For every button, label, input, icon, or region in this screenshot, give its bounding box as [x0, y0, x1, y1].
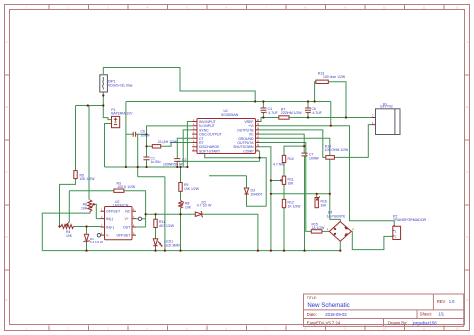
wire R6 bottom ground loop — [42, 212, 90, 251]
svg-text:100 OHM 1/2W: 100 OHM 1/2W — [325, 148, 349, 152]
svg-text:E: E — [5, 298, 7, 302]
svg-text:4.7 1/2 W: 4.7 1/2 W — [197, 204, 212, 208]
wire R16 row — [271, 193, 330, 195]
wire R13 right drop — [328, 82, 346, 118]
op-amp U2 LM741CN — [97, 200, 141, 240]
svg-text:1.0: 1.0 — [449, 299, 455, 304]
wire R9 top stub — [180, 167, 182, 183]
wire R5 top riser — [75, 106, 77, 171]
open circle pin V- — [97, 234, 100, 237]
capacitor C2 — [163, 158, 186, 166]
wire C6 top stub — [307, 102, 309, 109]
svg-text:100NF/50 NF: 100NF/50 NF — [163, 162, 183, 166]
wire GROUND pin to bridge — [260, 138, 341, 221]
wire C2 row to COMP — [177, 160, 259, 162]
svg-text:10K: 10K — [66, 234, 73, 238]
svg-text:TITLE:: TITLE: — [307, 296, 317, 300]
svg-text:COMP: COMP — [243, 149, 254, 153]
frame zone numbers top — [26, 6, 459, 10]
svg-text:100uF: 100uF — [141, 134, 151, 138]
svg-text:5.1 1/2 W: 5.1 1/2 W — [90, 240, 103, 244]
svg-text:10K: 10K — [288, 181, 295, 185]
potentiometer R6 — [81, 200, 94, 212]
wire R10 to R11 — [283, 163, 285, 177]
svg-text:22OHM 1/2W: 22OHM 1/2W — [281, 111, 302, 115]
resistor R12 — [282, 199, 301, 208]
svg-text:+ 4.7UF: + 4.7UF — [266, 111, 278, 115]
potentiometer R11 — [280, 176, 294, 185]
wire op-amp IN+ row — [74, 226, 101, 228]
wire R8 to zener D2 — [180, 208, 182, 214]
svg-text:3: 3 — [107, 326, 109, 330]
wire op-amp OUT stub — [136, 226, 146, 228]
wire OUTPUTB to R14 — [260, 130, 326, 158]
potentiometer R8 — [179, 201, 192, 210]
wire N.I.INPUT to C1 column — [147, 126, 193, 157]
capacitor C5 — [133, 129, 150, 137]
resistor R3 — [114, 182, 136, 193]
svg-text:10K: 10K — [185, 206, 192, 210]
svg-text:IN(+): IN(+) — [106, 225, 114, 229]
svg-text:VDG/S-01L blue: VDG/S-01L blue — [108, 84, 133, 88]
bridge rectifier D4 — [327, 211, 355, 242]
resistor R10 — [273, 155, 294, 166]
wire R8 node to ground — [180, 214, 182, 250]
svg-text:11: 11 — [422, 6, 425, 10]
svg-text:B: B — [466, 105, 468, 109]
svg-text:12: 12 — [455, 326, 459, 330]
wire node row y=214.8 — [146, 213, 196, 215]
wire R3 right feedback node — [124, 191, 146, 227]
wire rail1 left riser to C5 — [137, 134, 139, 177]
svg-text:Drawn By:: Drawn By: — [388, 320, 407, 325]
wire D3 top row — [209, 176, 247, 188]
svg-text:1N4007: 1N4007 — [251, 192, 263, 196]
capacitor C6 — [305, 107, 322, 115]
wire under-IC staple — [205, 154, 267, 207]
svg-text:10K: 10K — [81, 206, 88, 210]
svg-text:IN(-): IN(-) — [106, 217, 113, 221]
module B1 — [371, 102, 400, 134]
svg-text:OFFSET: OFFSET — [106, 210, 121, 214]
svg-text:9: 9 — [344, 326, 346, 330]
capacitor C4 — [260, 107, 277, 115]
wire OUTPUTA to R15 — [260, 143, 312, 232]
wire R6 top riser — [88, 106, 90, 200]
wire 12V rail drop to +VI row — [330, 102, 332, 126]
svg-text:D: D — [466, 235, 469, 239]
frame ticks top — [49, 5, 444, 10]
wire C6 bottom stub — [307, 112, 309, 118]
capacitor C7 — [301, 153, 319, 161]
wire left rail drop x=125.9 — [125, 102, 127, 168]
zener D1 — [83, 234, 103, 244]
wire INV.INPUT drop — [187, 122, 192, 168]
frame zone numbers bottom — [26, 326, 459, 330]
wire 12V rail y=101.5 — [126, 101, 331, 103]
wire 4K7 to LED — [155, 228, 157, 239]
wire C4 bottom stub — [262, 112, 264, 118]
svg-text:1/1: 1/1 — [438, 312, 444, 317]
wire R16 top stub — [316, 194, 318, 198]
resistor R14 — [325, 144, 349, 159]
svg-text:7: 7 — [265, 326, 267, 330]
svg-text:LM741CN: LM741CN — [113, 203, 129, 207]
wire ground link y=177.3 — [138, 177, 165, 251]
resistor R5 — [74, 171, 95, 182]
potentiometer R16 — [315, 197, 327, 208]
svg-text:A: A — [466, 40, 468, 44]
svg-text:10: 10 — [383, 326, 387, 330]
wire ground rail — [42, 250, 340, 252]
open circle pin V+ — [138, 217, 141, 220]
svg-text:100NF: 100NF — [309, 157, 319, 161]
svg-text:5: 5 — [186, 326, 188, 330]
svg-text:1A 1/2W: 1A 1/2W — [312, 226, 326, 230]
svg-text:10K: 10K — [321, 204, 328, 208]
svg-text:12: 12 — [455, 6, 459, 10]
svg-text:1u 50v: 1u 50v — [151, 160, 161, 164]
svg-text:10: 10 — [383, 6, 387, 10]
svg-text:SOFT-START: SOFT-START — [199, 149, 221, 153]
wire R12 to ground — [283, 208, 285, 251]
svg-text:2: 2 — [352, 229, 354, 231]
connector P2 — [393, 214, 427, 239]
wire op-amp V+ circle stub — [136, 218, 146, 220]
frame ticks bottom — [49, 326, 444, 331]
wire node to R10 — [284, 146, 304, 155]
wire VC drop — [260, 134, 305, 146]
svg-text:G1YY02: G1YY02 — [380, 104, 393, 108]
diode D3 — [244, 188, 262, 196]
wire zener D1 stubs — [86, 227, 88, 251]
resistor R9 — [179, 183, 200, 192]
svg-text:OFFSET: OFFSET — [116, 233, 131, 237]
IC U1 SG3525AN — [192, 109, 260, 153]
wire SHUTDOWN drop — [260, 147, 271, 251]
svg-text:4K7 1/2W: 4K7 1/2W — [159, 224, 175, 228]
svg-text:LED 3MM: LED 3MM — [165, 243, 180, 247]
wire C5 row — [126, 133, 147, 135]
wire bridge right to P2 pin2 — [352, 231, 393, 249]
svg-text:EasyEDA V5.7.24: EasyEDA V5.7.24 — [307, 320, 341, 325]
frame ticks right — [465, 75, 470, 270]
svg-text:C2: C2 — [182, 158, 186, 162]
svg-text:A: A — [5, 40, 7, 44]
svg-text:+ 4.7UF: + 4.7UF — [310, 111, 322, 115]
svg-text:4.7 NW: 4.7 NW — [273, 163, 285, 167]
LED LED1 — [153, 239, 179, 248]
svg-text:B: B — [5, 105, 7, 109]
wire R14 right to B1 pin1 — [334, 125, 371, 158]
wire R1 row RT — [147, 143, 193, 147]
wire VREF jog to R7 — [260, 118, 279, 122]
svg-text:D: D — [5, 235, 8, 239]
resistor R15 — [311, 223, 325, 233]
wire R15 to bridge — [322, 230, 329, 232]
resistor R7 — [279, 108, 303, 120]
wire R11 to R12 — [283, 184, 285, 199]
svg-text:100 ohm 1/2W: 100 ohm 1/2W — [323, 75, 346, 79]
frame zone letters right — [466, 40, 469, 302]
wire R5 bottom loop to R4 — [60, 179, 76, 227]
wire D2 right to ground — [202, 214, 258, 250]
wire C7 bottom to ground — [304, 156, 306, 251]
svg-text:jorgediaz158: jorgediaz158 — [412, 320, 438, 325]
svg-text:22 (AH 1/2W: 22 (AH 1/2W — [158, 140, 178, 144]
wire C2 bottom to rail1 — [176, 161, 178, 167]
svg-text:OUT: OUT — [123, 225, 131, 229]
svg-text:8: 8 — [305, 326, 307, 330]
wire LED to ground — [155, 246, 157, 251]
wire 12V from fuse top loop — [103, 68, 255, 102]
svg-text:V+: V+ — [125, 217, 129, 221]
svg-text:11: 11 — [422, 326, 425, 330]
svg-text:10K 1/2W: 10K 1/2W — [184, 187, 200, 191]
wire fuse bottom to battery — [103, 92, 111, 120]
wire gate row to B1 pin2 — [289, 117, 371, 119]
svg-text:BATERIA 12V: BATERIA 12V — [111, 112, 133, 116]
wire D3 bottom loop — [247, 194, 267, 206]
svg-text:C: C — [5, 170, 8, 174]
svg-text:4: 4 — [147, 326, 149, 330]
wire +VI to transformer P2 — [260, 126, 395, 227]
wire C1 bottom stub — [146, 160, 148, 167]
svg-text:NC: NC — [125, 210, 131, 214]
potentiometer R4 — [61, 222, 74, 238]
wire R3 left to R4 wiper — [69, 191, 114, 222]
svg-text:SG3525AN: SG3525AN — [221, 113, 239, 117]
svg-text:100 K 1/2W: 100 K 1/2W — [118, 185, 137, 189]
svg-text:Date:: Date: — [307, 312, 317, 317]
svg-text:6: 6 — [226, 326, 228, 330]
svg-text:2: 2 — [68, 326, 70, 330]
fuse DIP1 — [100, 75, 133, 92]
capacitor C1 — [143, 157, 161, 165]
wire battery minus drop — [105, 124, 112, 168]
svg-text:E: E — [466, 298, 468, 302]
svg-text:1A PUENTE: 1A PUENTE — [327, 215, 346, 219]
wire SYNC drop — [183, 130, 192, 167]
zener D2 — [195, 200, 212, 217]
svg-text:R10: R10 — [288, 157, 294, 161]
wire CT to C2 — [177, 138, 192, 158]
resistor R13 — [316, 72, 346, 84]
wire R11 wiper feed — [271, 180, 280, 182]
svg-text:TRANSFORMADOR: TRANSFORMADOR — [393, 218, 427, 222]
svg-text:2018-09-02: 2018-09-02 — [325, 312, 347, 317]
svg-text:Sheet:: Sheet: — [420, 312, 432, 317]
svg-text:1: 1 — [26, 326, 28, 330]
title block — [304, 294, 464, 326]
wire C4 top stub — [262, 102, 264, 109]
wire analog rail y=167.8 — [105, 166, 188, 168]
svg-text:REV: REV — [437, 299, 446, 304]
svg-text:10K 1/2W: 10K 1/2W — [80, 177, 96, 181]
wire bridge bottom to ground — [339, 242, 341, 251]
battery P1 — [111, 108, 133, 128]
wire R9 to R8 — [180, 191, 182, 200]
wire R6 wiper to IN- — [94, 204, 101, 218]
wire battery plus rail y=105.5 — [76, 105, 104, 107]
wire COMP drop — [259, 151, 261, 161]
svg-text:New Schematic: New Schematic — [307, 302, 349, 309]
svg-text:C: C — [466, 170, 469, 174]
wire 4K7 top stub — [155, 214, 157, 219]
frame zone letters left — [5, 40, 8, 302]
wire C7 top stub — [303, 146, 305, 153]
resistor R11 4K7 — [154, 219, 175, 228]
wire R13 left riser — [315, 82, 316, 102]
frame ticks left — [5, 75, 10, 270]
svg-text:1K 1/2W: 1K 1/2W — [288, 204, 302, 208]
svg-text:V-: V- — [106, 233, 109, 237]
resistor R1 22ohm — [152, 140, 178, 148]
